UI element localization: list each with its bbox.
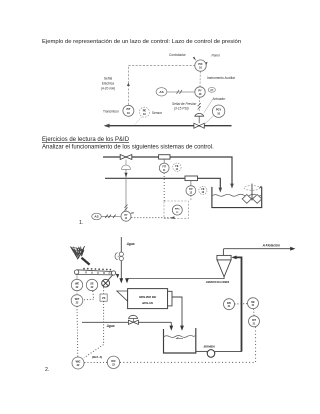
svg-text:1.: 1. [79,220,83,226]
wire FIT12 to FFIC dotted [190,196,192,201]
air supply oval AS [156,88,167,96]
shared display dashed box [164,201,188,219]
mill discharge pipe to sump [172,297,184,331]
svg-text:Controlador: Controlador [169,53,187,57]
svg-text:FFIC: FFIC [175,209,180,211]
wire AS to PY pneumatic with slashes [167,90,195,94]
wire pulley to VS dotted [103,287,105,294]
instrument DE 21 [248,298,259,309]
instrument FE 12 (dashed) [199,186,207,194]
svg-text:VS: VS [102,296,106,300]
svg-text:(4-20 mA): (4-20 mA) [101,87,115,91]
instrument FIT 11 [159,163,169,173]
wire VS to WIC dotted [84,301,104,358]
water feed top pipe [119,237,123,283]
ore hopper with scribble [71,246,90,264]
water line bottom label Agua [106,324,115,328]
pipe 1 top with corner into tank [103,157,234,189]
instrument FIT 12 [186,186,196,196]
instrument SE 22 [86,279,97,290]
belt feeder conveyor [74,268,115,275]
wire WIC to DIC dotted [84,361,107,363]
label Sensor [152,111,163,115]
svg-text:A Flotación: A Flotación [262,243,280,247]
instrument DIT 21 [249,316,260,327]
instrument DIV 21 [224,299,235,310]
label 2. [45,367,49,373]
wire DIV to DE dotted [235,303,248,305]
svg-text:PY: PY [124,215,128,217]
mill feed funnel [117,291,128,301]
svg-text:Eléctrica: Eléctrica [102,82,114,86]
label 1. [79,220,83,226]
label Actuador [212,97,227,101]
svg-text:Sensor: Sensor [152,111,163,115]
wire FFIC to PY11 dotted [131,216,174,219]
water line bottom [82,322,173,331]
svg-text:Actuador: Actuador [212,97,227,101]
valve V1 actuator dome below [122,160,131,170]
leader PCV to valve body [205,116,214,124]
svg-text:FE: FE [175,166,178,168]
mill end cap [168,291,172,306]
instrument WIC 22 [72,357,84,369]
svg-text:Analizar el funcionamiento de: Analizar el funcionamiento de los siguie… [42,145,214,151]
svg-text:I/P: I/P [210,88,213,92]
svg-text:Señal de Presión: Señal de Presión [172,102,197,106]
instrument DIC 22 [107,356,119,368]
svg-text:2.: 2. [45,367,49,373]
svg-text:BOLAS: BOLAS [142,301,153,305]
svg-text:Ejemplo de representación de u: Ejemplo de representación de un lazo de … [42,39,241,45]
I/P converter tag oval [208,87,215,92]
label Transmisor [103,110,120,114]
label Señal de Presión (3-15 PSI) [172,102,197,111]
svg-text:MOLINO DE: MOLINO DE [139,295,157,299]
svg-text:PIC: PIC [198,63,202,66]
svg-text:Agua: Agua [106,324,115,328]
wire PIC to PY [199,71,201,87]
manual valve on top water pipe [115,252,123,261]
svg-text:FIT: FIT [189,189,193,191]
svg-text:Instrumento Auxiliar: Instrumento Auxiliar [207,76,236,80]
svg-text:BOMBA: BOMBA [204,345,215,349]
water feed top label Agua [126,242,135,246]
material fall arrow at head pulley [116,274,119,278]
svg-text:(Ref. 2): (Ref. 2) [92,355,102,359]
instrument PIT 10 [123,105,134,116]
control valve on bottom water line [128,315,138,324]
pump [196,350,242,358]
wire PY to valve actuator pneumatic [198,97,201,112]
svg-text:Transmisor: Transmisor [103,110,120,114]
svg-text:FIT: FIT [162,167,166,169]
I/P tag of PY11 [131,211,135,215]
label A Flotación [262,243,280,247]
label (Ref. 2) [92,355,102,359]
valve diaphragm actuator dome [195,113,204,123]
cyclone underflow return line [125,277,224,284]
heading Analizar [42,145,214,151]
title text line [42,39,241,45]
arrow into PIC from Panel side [204,62,207,66]
leader PE to pipe [135,117,142,125]
label Panel [212,54,220,58]
pipe 2 with corner into tank [105,178,222,192]
instrument WE 22 [71,275,82,290]
label Controlador [169,53,187,57]
flow element FE11 inline body [159,155,170,164]
process pipe with left arrow [104,124,232,128]
overflow line to flotation [223,247,295,251]
wire electric signal vertical PIT to junction [127,66,130,106]
svg-text:(3-15 PSI): (3-15 PSI) [174,107,189,111]
instrument PCV 10 [212,105,224,117]
svg-text:PY: PY [198,89,202,92]
svg-text:DIC: DIC [111,360,116,363]
wire WIT to WIC dotted [76,306,79,356]
instrument PY 10 [195,87,205,97]
wire AS to PY11 with slashes [101,215,121,218]
svg-text:WIC: WIC [76,361,81,364]
svg-text:FE: FE [201,189,204,191]
agitator [242,184,262,204]
sump tank [164,328,196,353]
leader Actuador to valve dome [204,99,213,112]
instrument PY 11 [121,211,131,221]
wire SE to WIT dotted [84,291,94,300]
instrument PE 10 (dashed) [139,107,149,117]
svg-text:PIT: PIT [126,108,130,111]
switch box VS [100,294,107,301]
label HIDROCICLONES [206,280,230,284]
heading Ejercicios [42,137,130,143]
wire DIC to DIT dotted bus [120,327,256,362]
instrument PIC 10 [195,60,206,71]
svg-text:Agua: Agua [126,242,135,246]
instrument FFIC 11 [172,205,182,215]
svg-text:Ejercicios de lectura de los P: Ejercicios de lectura de los P&ID [42,137,130,143]
svg-text:Panel: Panel [212,54,220,58]
valve V1 on pipe 1 [120,155,132,160]
wire DE to DIT dotted [253,309,255,316]
conveyor drive pulley with cross [102,275,113,287]
flow element FE12 inline body [185,176,198,186]
svg-text:PCV: PCV [216,109,221,112]
svg-text:AS: AS [159,90,163,94]
cyclone feed riser pipe [231,256,241,352]
svg-text:I/P: I/P [131,211,135,215]
svg-text:PE: PE [143,110,147,113]
mixing tank [212,187,262,208]
air supply oval AS exercise1 [92,213,102,220]
instrument WIT 22 [71,291,83,307]
svg-text:Señal: Señal [104,77,112,81]
label BOMBA [204,345,215,349]
label Instrumento Auxiliar [207,76,236,80]
ball mill body [128,289,168,309]
arrow into PIC from Controlador label [193,57,196,61]
svg-text:AS: AS [94,215,98,219]
wire electric signal horizontal to PIC [128,65,194,67]
wire pneumatic signal valve to PY 11 [124,169,127,211]
control valve PCV body [194,123,204,128]
label Señal Eléctrica (4-20 mA) [101,77,115,91]
wire FIT11 to FFIC dotted [163,173,165,201]
svg-text:HIDROCICLONES: HIDROCICLONES [206,280,230,284]
instrument FE 11 (dashed) [173,163,181,171]
hydrocyclone [217,249,231,277]
